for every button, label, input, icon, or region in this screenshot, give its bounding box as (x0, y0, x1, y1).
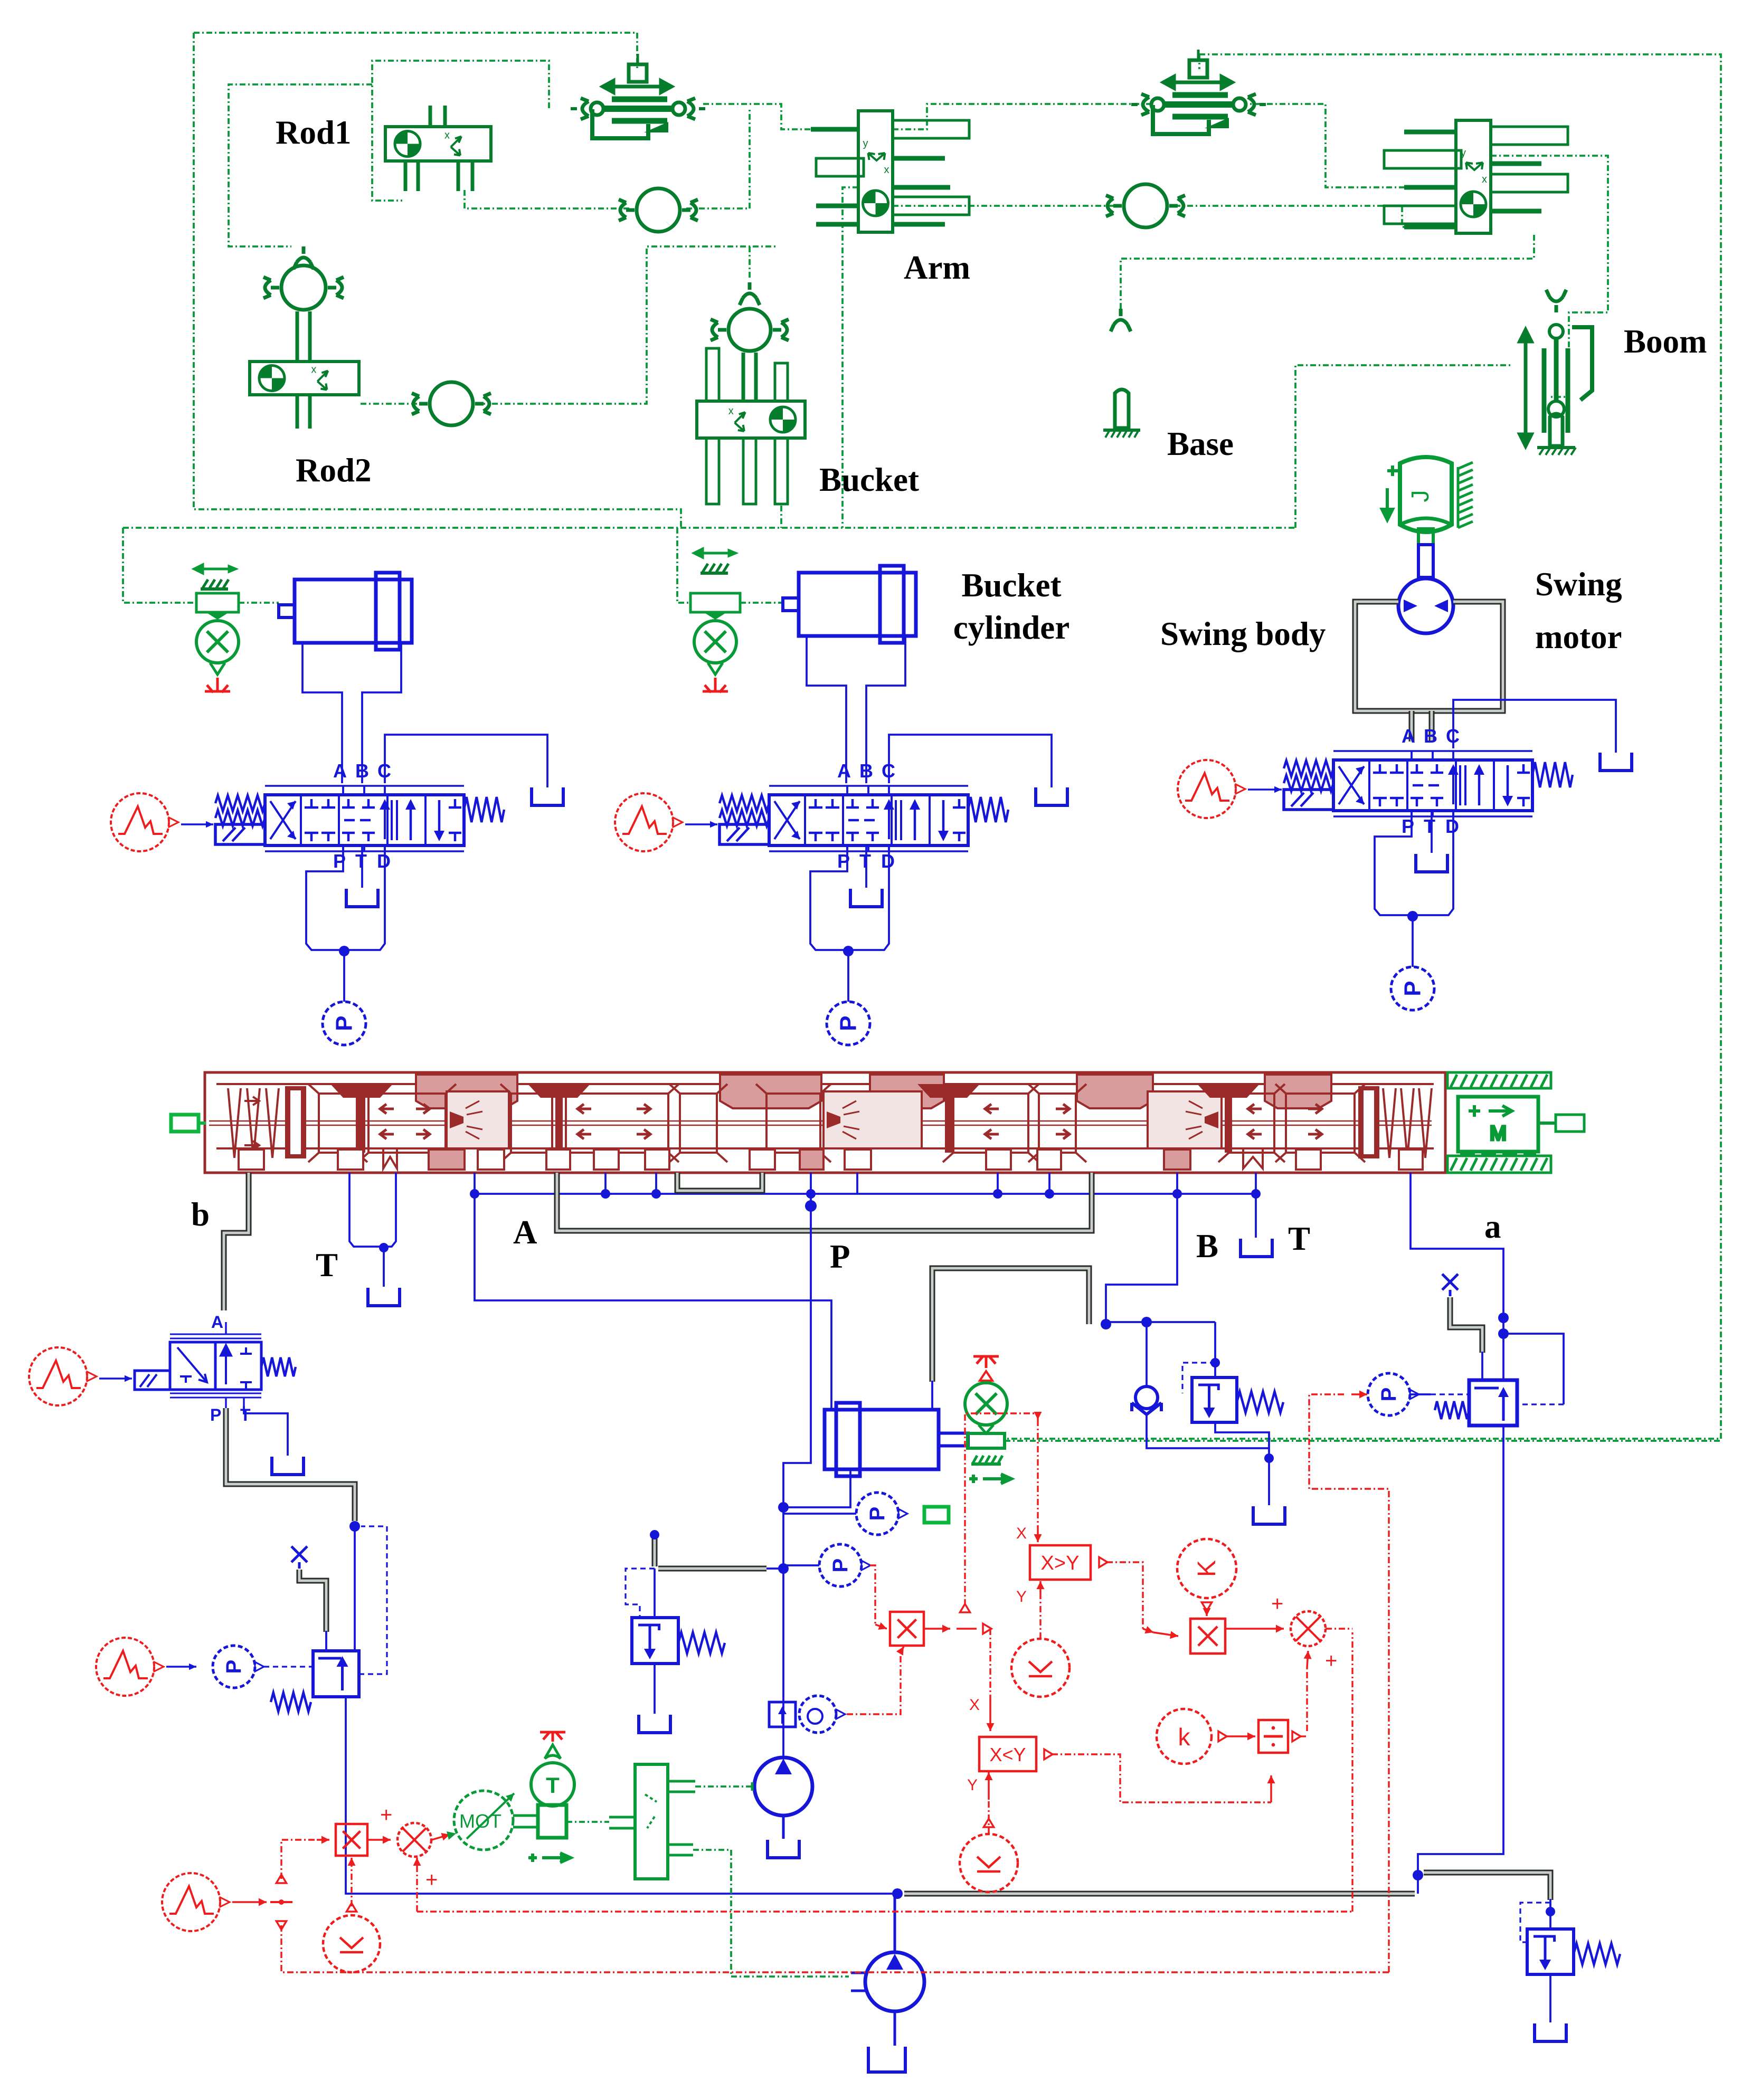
svg-text:C: C (1446, 725, 1460, 747)
svg-text:B: B (355, 760, 369, 782)
wire A down to cylinder (475, 1194, 831, 1409)
divider DIV (1258, 1720, 1288, 1753)
pipe swing loop (1355, 602, 1503, 711)
wire into relief R4 (1549, 1899, 1551, 1929)
sensor connector green (924, 1507, 949, 1523)
svg-text:k: k (1178, 1723, 1191, 1751)
dashed pilot R1 (359, 1526, 387, 1674)
tank T2 manifold (1241, 1239, 1272, 1257)
wire R2 to tank (654, 1664, 656, 1714)
wire X stub right (1442, 1274, 1458, 1296)
wire S5 to gauge (166, 1666, 196, 1667)
saturation SC2 (1011, 1639, 1069, 1697)
3-port valve V4 (135, 1313, 296, 1424)
tank V4 (272, 1457, 304, 1475)
svg-text:B: B (859, 760, 873, 782)
displacement transducer X1 (194, 565, 239, 692)
signal source S2 (615, 793, 673, 851)
wire to boom source (1295, 365, 1510, 528)
wire PG1 to R1 dashed (264, 1666, 313, 1667)
dashed pilot R3 (1182, 1363, 1215, 1393)
wire S1 to V1 (181, 823, 213, 825)
wire bucket lower pin (780, 506, 782, 528)
pipe long jumper (557, 1173, 1092, 1231)
manifold bottom tabs (239, 1149, 1423, 1170)
svg-text:Boom: Boom (1624, 323, 1707, 360)
wire T2 to tank (1255, 1194, 1257, 1238)
pipe bucket pressure tap (652, 1536, 658, 1566)
wire valve V3 T to tank (1431, 812, 1433, 853)
tank V3 top right (1600, 753, 1632, 771)
wire valve V1 T to tank (361, 847, 363, 888)
wire R1 down to bottom bus (346, 1697, 897, 1894)
wire arm lower-left (843, 187, 858, 528)
manifold chambers (447, 1091, 509, 1148)
pressure gauge PG2 (856, 1493, 898, 1535)
wire X stub left (291, 1546, 307, 1569)
svg-text:A: A (333, 760, 347, 782)
svg-text:P: P (1377, 1388, 1400, 1402)
manifold spool pistons (285, 1086, 306, 1158)
wire XB2 out (924, 1628, 950, 1630)
svg-text:x: x (728, 405, 734, 417)
multiplier XB1 (336, 1824, 367, 1856)
manifold dividers (358, 1090, 365, 1153)
mass block M right (1447, 1072, 1584, 1173)
svg-text:P: P (836, 1015, 862, 1031)
wire gearbox to pump PM1 (695, 1785, 752, 1788)
tank T1 manifold (368, 1288, 400, 1306)
svg-text:Base: Base (1167, 425, 1234, 462)
pressure source P1 (323, 1002, 366, 1045)
wire PG4 to PC1 dashed (1410, 1393, 1431, 1395)
wire transducer2 to cylinder2 (740, 602, 783, 604)
pressure gauge PG1 (213, 1646, 255, 1688)
directional valve V1 (215, 760, 504, 872)
svg-text:+: + (1325, 1649, 1337, 1673)
wire SC3 to XltY (983, 1819, 993, 1827)
multiplier XB2 (890, 1612, 924, 1646)
svg-text:K: K (1193, 1560, 1221, 1577)
svg-text:Arm: Arm (904, 249, 970, 286)
svg-text:Rod2: Rod2 (296, 452, 372, 489)
manifold pink caps (416, 1075, 517, 1108)
hydraulic motor swing (1398, 578, 1453, 633)
svg-text:X: X (1016, 1525, 1027, 1542)
svg-text:T: T (546, 1773, 560, 1798)
svg-text:Rod1: Rod1 (276, 114, 352, 151)
wire B down (1106, 1194, 1177, 1324)
svg-text:M: M (1490, 1123, 1507, 1145)
svg-text:T: T (316, 1247, 338, 1284)
pipe port b (224, 1173, 249, 1310)
manifold top shoulders (330, 1084, 1260, 1098)
wire revolute J1 to arm net (686, 108, 750, 208)
svg-text:P: P (1400, 981, 1426, 996)
gain k (1157, 1709, 1211, 1764)
tank R3 (1253, 1506, 1285, 1524)
body Arm (811, 111, 969, 232)
svg-text:motor: motor (1535, 619, 1622, 655)
wire C4 bottom port (783, 1469, 850, 1507)
svg-text:T: T (859, 850, 871, 872)
wire node to P source 3 (1412, 916, 1414, 967)
wire arm to transl joint T2 (893, 104, 1156, 129)
svg-text:A: A (211, 1313, 223, 1332)
wire P down (783, 1194, 811, 1759)
svg-text:Bucket: Bucket (962, 567, 1062, 604)
svg-text:MOT: MOT (459, 1810, 501, 1832)
svg-text:Y: Y (967, 1776, 978, 1794)
wire transl T2 to boom (1242, 104, 1456, 187)
pipe bottom long (904, 1891, 1415, 1897)
manifold main block (205, 1072, 1445, 1173)
wire to transducer2 (677, 528, 690, 603)
displacement transducer X4 (965, 1356, 1011, 1484)
manifold left connector (171, 1115, 198, 1132)
wire to gauge PG2 (783, 1513, 856, 1515)
wire green lower bus (123, 527, 1295, 529)
revolute joint J4 above bucket (711, 282, 789, 401)
pipe V4 P down (226, 1408, 355, 1521)
wire rod1 to revolute J1 (465, 190, 630, 208)
body Boom (1384, 120, 1568, 233)
revolute joint J2 (412, 382, 491, 425)
wire XgtY out (1099, 1557, 1108, 1567)
wire B node to check valve (1106, 1321, 1215, 1323)
svg-text:T: T (240, 1405, 251, 1424)
manifold springs right (1383, 1088, 1396, 1158)
svg-text:J: J (1406, 490, 1434, 502)
svg-text:A: A (513, 1214, 537, 1251)
wire revolute J3 to boom (1175, 206, 1456, 227)
wire green X4 feedback (1005, 1440, 1721, 1442)
svg-text:X: X (969, 1696, 980, 1714)
pipe swing A stub (1409, 711, 1415, 742)
body Rod2 (250, 362, 359, 429)
revolute joint J2a top of Rod2 (263, 246, 344, 362)
svg-text:B: B (1196, 1228, 1218, 1265)
pressure gauge PG4 (1368, 1373, 1410, 1415)
pressure source P2 (827, 1002, 870, 1045)
svg-text:x: x (444, 130, 450, 141)
svg-text:b: b (191, 1196, 210, 1233)
compensator valve PC1 (1435, 1380, 1517, 1426)
hydraulic cylinder C1 (279, 573, 412, 650)
compensator loop (1503, 1334, 1564, 1404)
svg-text:D: D (377, 850, 391, 872)
svg-text:Bucket: Bucket (819, 461, 919, 498)
pipe B to cylinder rod side (932, 1268, 1089, 1382)
svg-text:A: A (837, 760, 851, 782)
wire red y3737 (281, 1925, 1389, 1972)
wire Q1 to X box (847, 1652, 901, 1714)
signal source S3 (1178, 760, 1236, 818)
wire SM1 to MOT (432, 1835, 450, 1840)
summer SM2 (1291, 1611, 1326, 1646)
signal source S1 (111, 793, 169, 851)
wire SC2 to XgtY (1039, 1594, 1041, 1639)
green arrow marker (528, 1853, 571, 1863)
wire top border right (1198, 54, 1200, 69)
saturation circle SC1 (323, 1915, 380, 1972)
wire base link (1121, 235, 1534, 309)
tank PM1 (768, 1840, 799, 1858)
wire splitter up to X box (281, 1840, 317, 1879)
svg-text:Swing body: Swing body (1160, 615, 1326, 652)
wire valve V2 T to tank (865, 847, 867, 888)
svg-text:cylinder: cylinder (953, 609, 1069, 646)
svg-text:P: P (210, 1405, 221, 1424)
wire green left border (194, 33, 681, 528)
wire valve V2 P and D to node (810, 847, 847, 950)
tank V2 bottom (850, 889, 882, 907)
directional valve V2 (720, 760, 1008, 872)
splitter (276, 1875, 286, 1883)
revolute joint J3 (1106, 184, 1185, 227)
tank V3 bottom (1416, 854, 1447, 872)
wire up to XgtY (965, 1413, 1038, 1605)
translational joint T1 (571, 54, 705, 138)
svg-text:x: x (311, 364, 316, 376)
tank V1 top right (532, 787, 563, 805)
svg-text:P: P (866, 1507, 889, 1521)
relief valve R3 (1192, 1377, 1237, 1422)
relief valve R1 (313, 1651, 359, 1697)
saturation SC3 (960, 1834, 1018, 1892)
pump PM2 (851, 1894, 924, 2046)
pipe X to relief R1 (299, 1570, 326, 1632)
rotary load J swing body (1382, 457, 1473, 545)
wire V4 T to tank (244, 1406, 288, 1456)
relief valve R2 (632, 1618, 678, 1664)
tank R4 (1535, 2023, 1566, 2041)
manifold springs left (228, 1088, 241, 1158)
svg-text:P: P (222, 1660, 245, 1674)
wire green top-left border (194, 33, 637, 69)
tank PM2 (868, 2047, 905, 2072)
wire rod2 to revolute J2 (361, 403, 423, 405)
revolute joint J1 (619, 188, 698, 232)
hydraulic cylinder C2 (783, 566, 916, 643)
wire valve V3 port C to tank (1453, 700, 1616, 753)
svg-text:B: B (1424, 725, 1437, 747)
svg-text:C: C (377, 760, 391, 782)
shaft coupler (538, 1805, 566, 1838)
signal source S5 (96, 1638, 154, 1696)
svg-text:y: y (863, 138, 868, 149)
directional valve V3 (1284, 725, 1573, 837)
wire S3 to V3 (1248, 788, 1282, 790)
wire cylinder C1 ports (302, 643, 342, 783)
shaft swing (1418, 545, 1433, 577)
signal source S4 (29, 1347, 87, 1405)
svg-text:a: a (1484, 1208, 1501, 1245)
wire revolute J2 to bucket (479, 246, 776, 404)
wire to gauge PG3 (783, 1564, 819, 1566)
wire a down (1418, 1426, 1503, 1894)
wire bucket revolute stem (749, 246, 751, 279)
wire S2 to V2 (685, 823, 717, 825)
svg-text:C: C (882, 760, 895, 782)
manifold arrows (380, 1104, 1322, 1139)
comparator XltY (979, 1737, 1036, 1771)
pressure source P3 (1391, 967, 1434, 1010)
pipe short jumper (677, 1173, 762, 1191)
check valve CV1 (1132, 1386, 1161, 1414)
relief valve R4 (1527, 1929, 1574, 1974)
body Bucket (697, 348, 805, 504)
wire arm to revolute J3 (893, 205, 1116, 207)
wire to XltY X input (989, 1629, 991, 1698)
wire R3 to tank (1215, 1422, 1269, 1505)
svg-text:D: D (881, 850, 895, 872)
wire A bus (474, 1173, 476, 1194)
pressure gauge PG3 (819, 1544, 862, 1586)
wire red y3622 (417, 1911, 1352, 1912)
svg-text:T: T (1424, 815, 1435, 837)
svg-text:A: A (1402, 725, 1415, 747)
translational joint T2 (1131, 50, 1266, 134)
wire valve V1 P and D to node (306, 847, 343, 950)
signal source S6 (162, 1873, 220, 1931)
gearbox block (609, 1764, 695, 1879)
svg-text:X<Y: X<Y (989, 1744, 1026, 1765)
wire cylinder C2 ports (807, 636, 846, 783)
body Base (1103, 389, 1140, 438)
dashed pilot R2 (626, 1569, 655, 1619)
prime mover MOT (454, 1791, 538, 1850)
comparator XgtY (1030, 1545, 1091, 1580)
svg-text:D: D (1445, 815, 1459, 837)
svg-text:X>Y: X>Y (1041, 1552, 1080, 1574)
half joint fork base link (1111, 309, 1131, 331)
wire node to relief R1 (354, 1526, 356, 1651)
torque gauge T1g (531, 1732, 574, 1806)
pipe X to compensator (1450, 1297, 1482, 1353)
body Rod1 (385, 106, 491, 191)
wire gearbox to pump PM2 (693, 1850, 849, 1977)
wire into relief R2 (654, 1569, 656, 1618)
svg-text:+: + (380, 1803, 392, 1827)
wire to transducer1 (123, 528, 196, 603)
wire red feedback up into XB1 (351, 1864, 352, 1906)
wire S6 to splitter (232, 1901, 267, 1903)
wire XltY out (1044, 1749, 1053, 1759)
wire valve V3 P and D to node (1375, 812, 1412, 915)
flow sensor Q1 (769, 1696, 845, 1733)
wire S4 to V4 (99, 1377, 132, 1379)
svg-text:Y: Y (1016, 1588, 1027, 1605)
multiplier XB3 (1190, 1619, 1225, 1654)
pipe to relief R4 (1424, 1873, 1550, 1900)
tank R2 (639, 1715, 670, 1733)
svg-text:T: T (1288, 1220, 1310, 1257)
tank V1 bottom (346, 889, 378, 907)
wire valve V2 port C to tank (889, 735, 1052, 787)
svg-text:P: P (830, 1238, 850, 1275)
dashed pilot R4 (1520, 1903, 1550, 1942)
node V3 supply (1407, 911, 1418, 921)
wire rod1 subnet rect (372, 61, 549, 201)
tank V2 top right (1036, 787, 1067, 805)
wire R4 to tank (1549, 1974, 1551, 2022)
wire coupler to gearbox (566, 1821, 609, 1823)
svg-text:x: x (884, 164, 889, 176)
svg-text:+: + (425, 1868, 438, 1892)
velocity source Boom (1520, 290, 1592, 455)
hydraulic cylinder C4 (825, 1403, 968, 1476)
node V1 supply (339, 946, 349, 956)
svg-text:Swing: Swing (1535, 566, 1622, 603)
pipe port a (1411, 1173, 1503, 1380)
wire to relief R3 (1214, 1322, 1216, 1377)
wire green right border + bottom feedback (1006, 54, 1721, 1439)
wire transl joint T1 to arm (703, 104, 858, 129)
pump PM1 (754, 1757, 812, 1839)
wire transducer1 to cylinder1 (239, 602, 279, 604)
wire red to PG4 (1351, 1393, 1367, 1395)
wire T1 ports (349, 1173, 384, 1247)
wire PG3 signal to X box (870, 1565, 875, 1624)
svg-text:x: x (1482, 174, 1487, 185)
wire boom subnet (1491, 156, 1608, 397)
wire valve V1 port C to tank (385, 735, 547, 787)
svg-text:P: P (829, 1559, 852, 1573)
wire node to P source 1 (343, 951, 345, 1002)
displacement transducer X2 (690, 549, 740, 692)
svg-text:T: T (355, 850, 367, 872)
node V2 supply (843, 946, 854, 956)
wire SM2 out (1326, 1628, 1352, 1629)
pipe swing B stub (1429, 711, 1435, 742)
wire rod2 subnet rect (229, 84, 372, 246)
manifold channel boxes (308, 1084, 1365, 1162)
svg-text:+: + (1271, 1592, 1283, 1616)
wire node to P source 2 (847, 951, 849, 1002)
gain K (1177, 1539, 1236, 1598)
svg-text:P: P (332, 1015, 357, 1031)
summer SM1 (397, 1823, 431, 1857)
